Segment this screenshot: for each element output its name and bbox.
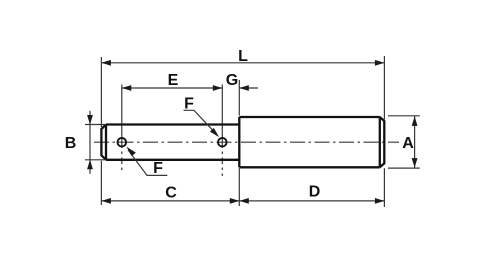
B extension lines (85, 125, 105, 160)
dimension B line (89, 111, 91, 174)
leader F lower arrowhead (126, 147, 135, 156)
arrow G right pointing left (239, 85, 249, 91)
arrow D right (375, 198, 385, 204)
dimension G line tail (239, 87, 258, 89)
arrow L left (101, 60, 111, 66)
shoulder step (238, 117, 240, 167)
dimension D line (239, 200, 384, 202)
arrow A bottom (412, 158, 418, 168)
hole 1 vertical centerline (121, 85, 123, 149)
arrow E right (213, 85, 223, 91)
dimension A extension lines (388, 116, 420, 168)
svg-text:B: B (65, 135, 77, 152)
dimension G extension line (238, 80, 240, 116)
arrow B top pointing down (87, 115, 93, 125)
chamfer line left (105, 125, 107, 160)
arrow A top (412, 116, 418, 126)
svg-text:G: G (226, 72, 238, 89)
leader F lower (128, 150, 167, 176)
svg-text:C: C (165, 185, 177, 202)
svg-text:F: F (153, 160, 163, 177)
arrow D left (239, 198, 249, 204)
shaft left end chamfered (101, 125, 106, 160)
dimension C line (101, 200, 239, 202)
shaft large section outline (239, 117, 379, 167)
arrow B bottom pointing up (87, 160, 93, 170)
dimension L extension lines (101, 56, 384, 127)
shaft right end chamfered (380, 117, 385, 167)
shaft small section outline (106, 125, 239, 160)
svg-text:A: A (402, 135, 414, 152)
arrow C left (101, 198, 111, 204)
arrow L right (375, 60, 385, 66)
leader F upper (184, 110, 218, 135)
dimension C/D extension lines (101, 161, 384, 207)
arrow E left (122, 85, 132, 91)
svg-text:F: F (184, 96, 194, 113)
hole F2 (218, 138, 227, 147)
hole 2 vertical centerline (221, 85, 223, 149)
chamfer line right (379, 117, 381, 167)
hole F1 (118, 138, 127, 147)
dimension L line (101, 62, 384, 64)
dimension A line (414, 116, 416, 167)
svg-text:L: L (238, 48, 248, 65)
dimension E line (122, 87, 223, 89)
svg-text:D: D (309, 184, 321, 201)
leader F upper arrowhead (210, 128, 219, 137)
centerline horizontal (94, 141, 399, 143)
arrow C right (230, 198, 240, 204)
svg-text:E: E (168, 72, 179, 89)
